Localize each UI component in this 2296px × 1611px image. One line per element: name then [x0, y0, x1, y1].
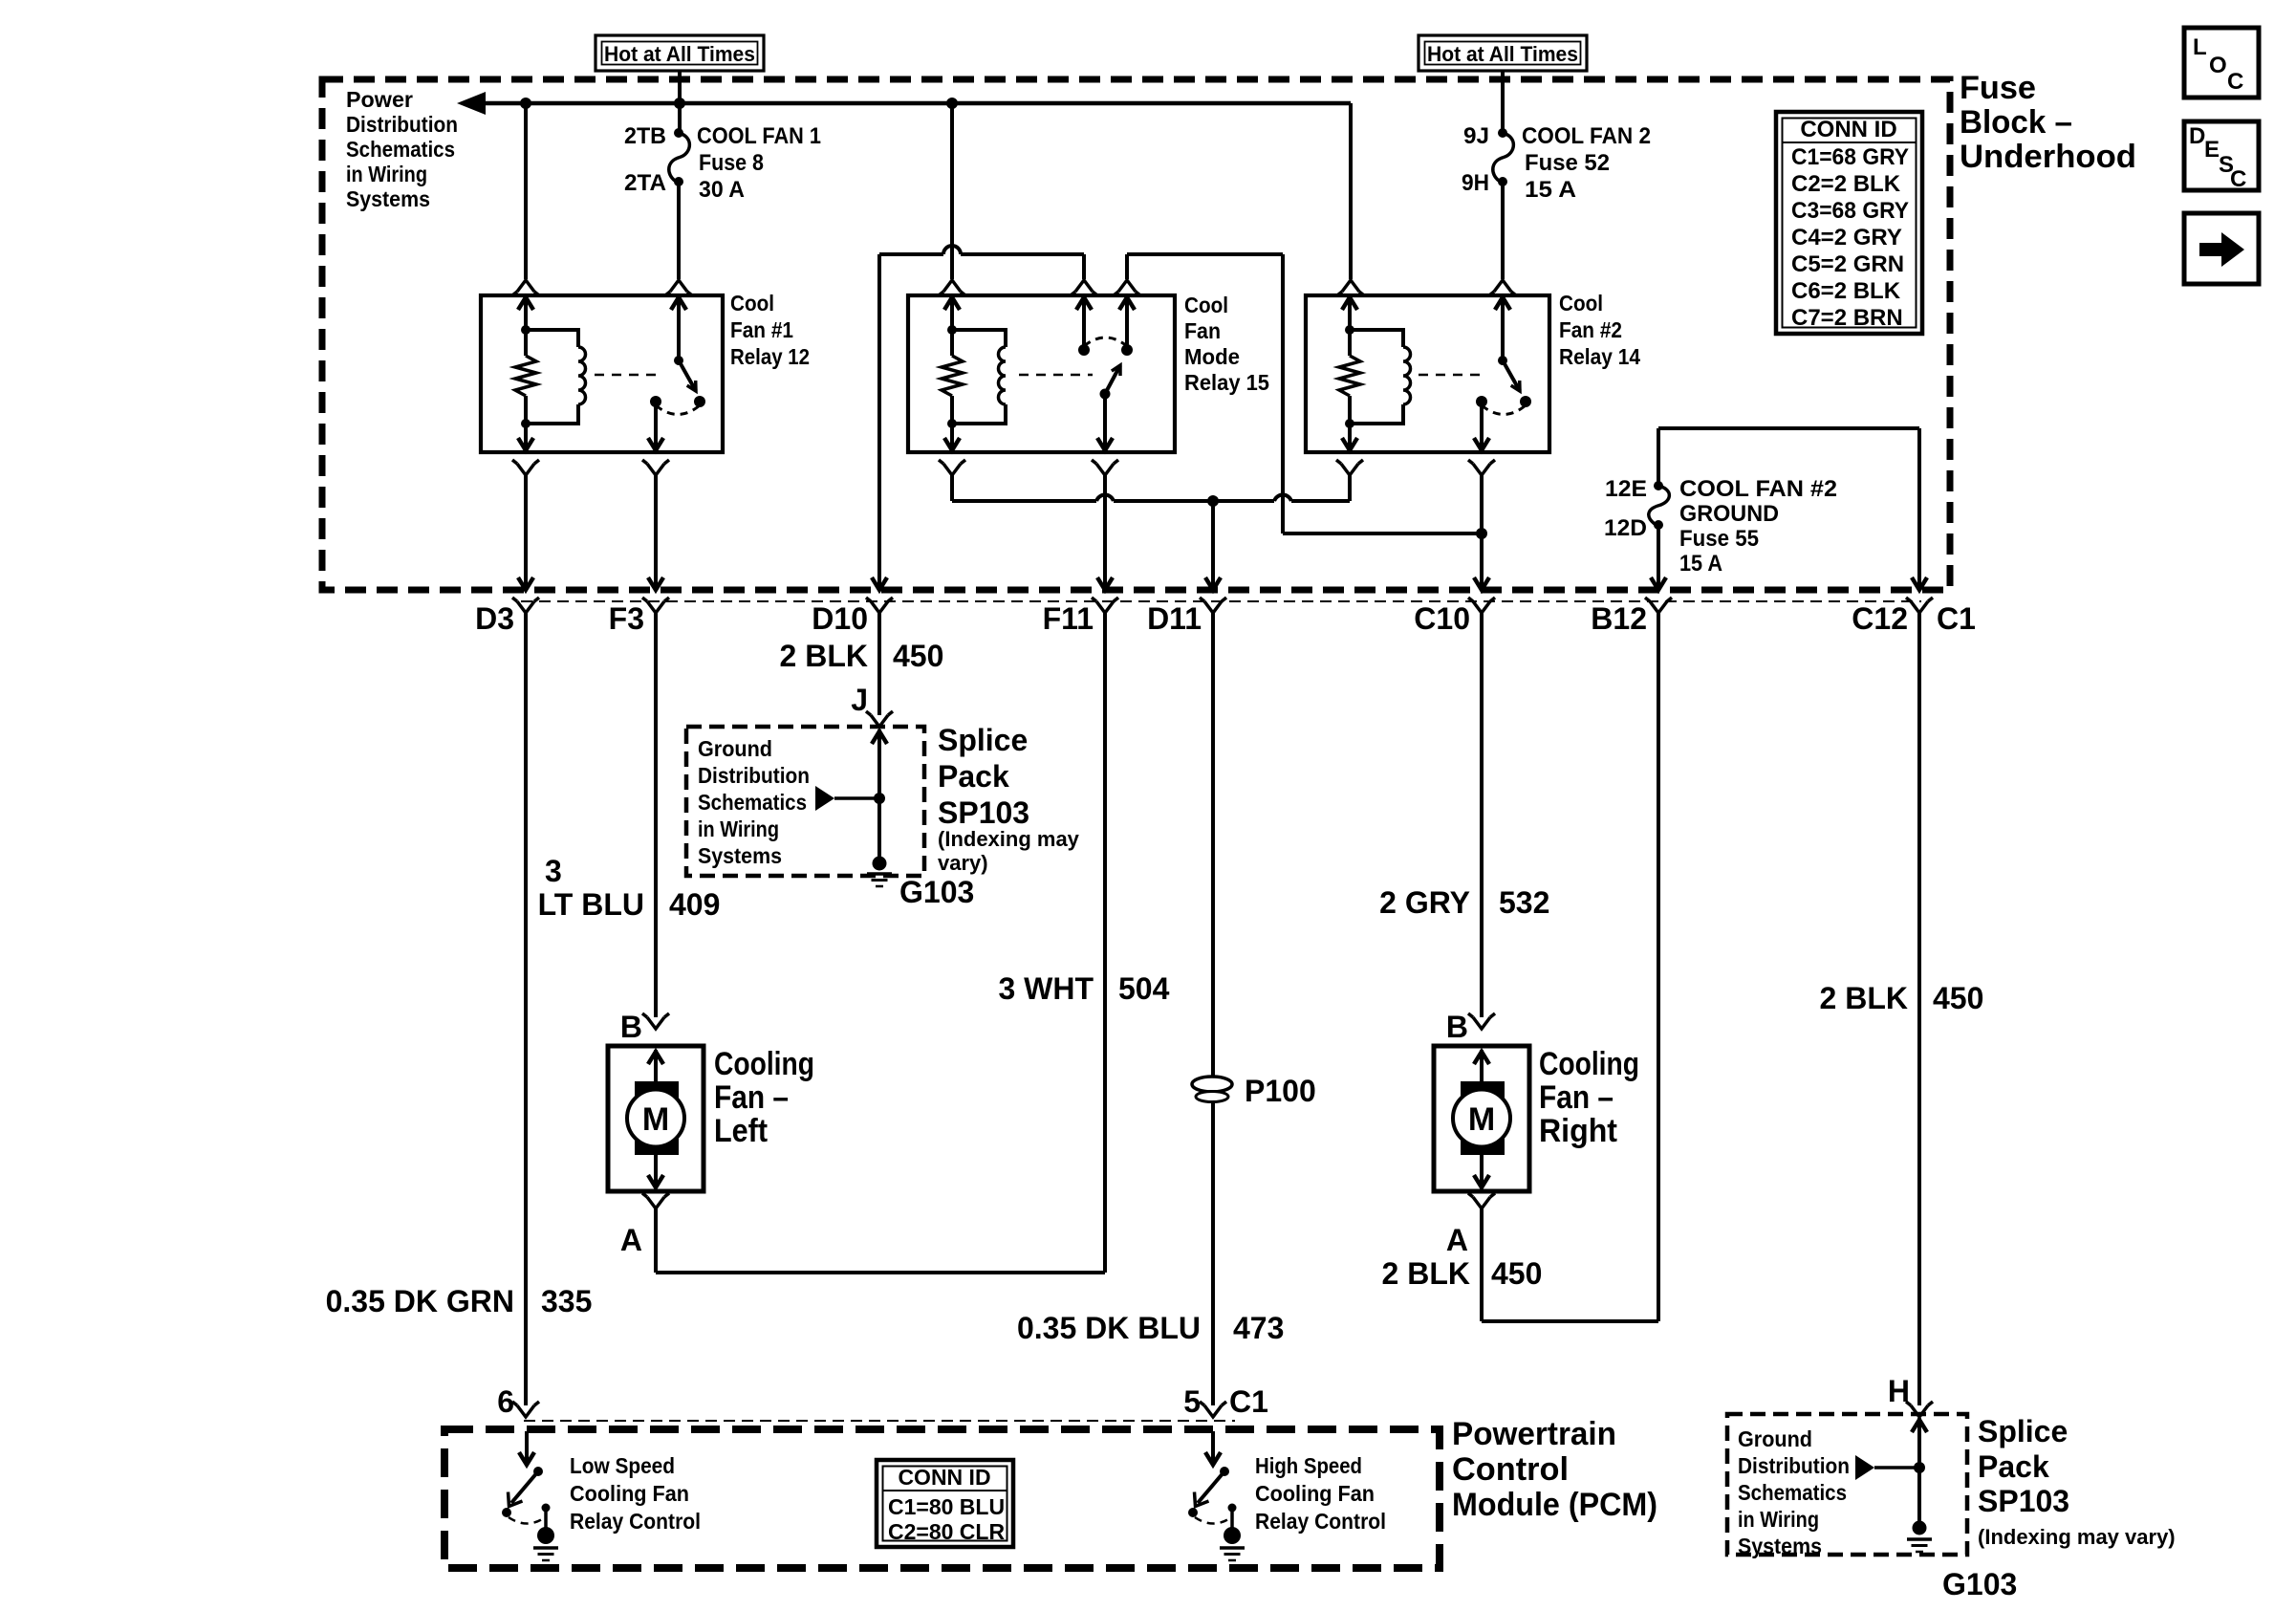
svg-text:0.35 DK BLU: 0.35 DK BLU [1017, 1311, 1201, 1345]
svg-text:in Wiring: in Wiring [1738, 1507, 1819, 1532]
label: Splice Pack SP103 (bottom) [1978, 1414, 2176, 1549]
svg-text:C5=2 GRN: C5=2 GRN [1791, 251, 1904, 277]
motor M2 box (Cooling Fan - Right) [1434, 1046, 1529, 1191]
svg-text:Cool: Cool [1184, 293, 1228, 317]
svg-text:O: O [2209, 53, 2227, 78]
svg-text:Relay 12: Relay 12 [730, 344, 810, 369]
svg-text:D3: D3 [475, 601, 514, 636]
svg-text:Cooling Fan: Cooling Fan [1255, 1481, 1375, 1506]
svg-text:Distribution: Distribution [346, 112, 458, 137]
label: Splice Pack SP103 (top) [938, 723, 1080, 875]
relay K12 coil [521, 330, 586, 428]
svg-text:Schematics: Schematics [1738, 1480, 1847, 1505]
label: Low Speed Cooling Fan Relay Control [570, 1453, 701, 1534]
svg-text:B: B [1446, 1010, 1468, 1044]
wire: D11 drop inside fuse block [1205, 501, 1221, 590]
wire: relay 15 NO contact riser [1114, 254, 1283, 533]
relay K15 common output wire [1092, 394, 1118, 590]
svg-text:Ground: Ground [1738, 1426, 1812, 1451]
svg-text:F3: F3 [609, 601, 644, 636]
icon box: DESC [2184, 121, 2259, 192]
relay K15 switch arm [1100, 365, 1121, 400]
svg-text:P100: P100 [1245, 1074, 1316, 1108]
label: Ground Distribution Schematics in Wiring Systems (bottom splice) [1738, 1426, 1850, 1558]
svg-text:473: 473 [1233, 1311, 1284, 1345]
wire: right fan A to B12 (2 BLK 450) [1382, 1208, 1658, 1321]
svg-text:Low Speed: Low Speed [570, 1453, 675, 1478]
svg-text:450: 450 [1933, 981, 1983, 1015]
relay K15 actuation dashed link [1019, 374, 1093, 377]
node: bus junction at fuse 8 [674, 98, 685, 109]
svg-text:Cool: Cool [730, 291, 774, 316]
svg-text:C12: C12 [1852, 601, 1908, 636]
wire: left hot box to bus [678, 71, 682, 103]
relay K14 switch [1476, 297, 1531, 415]
svg-text:9H: 9H [1462, 170, 1489, 196]
relay K15 contact dashed arc [1084, 337, 1127, 346]
svg-text:A: A [620, 1223, 642, 1257]
splice pack SP103 dashed box (bottom) [1727, 1414, 1967, 1555]
svg-text:0.35 DK GRN: 0.35 DK GRN [326, 1284, 514, 1318]
svg-text:2 BLK: 2 BLK [1820, 981, 1908, 1015]
svg-text:B: B [620, 1010, 642, 1044]
label: Cooling Fan - Right [1539, 1046, 1639, 1149]
PCM connector C1 label [1229, 1384, 1268, 1419]
svg-text:CONN ID: CONN ID [1800, 117, 1896, 142]
svg-text:Fan –: Fan – [714, 1079, 789, 1116]
svg-text:M: M [642, 1101, 669, 1138]
svg-text:(Indexing may: (Indexing may [938, 827, 1080, 851]
svg-text:Systems: Systems [1738, 1534, 1822, 1558]
connector pin F3 (fuse block) [609, 598, 669, 636]
wire: D10 corner to relay 15 NC contact [879, 246, 1097, 295]
svg-text:M: M [1468, 1101, 1495, 1138]
ground G103 (top) [867, 857, 974, 910]
PCM low speed fan relay driver [502, 1431, 558, 1560]
svg-text:GROUND: GROUND [1679, 501, 1779, 527]
svg-text:Fan: Fan [1184, 318, 1221, 343]
PCM dashed box (Powertrain Control Module) [444, 1429, 1440, 1568]
wire: right hot box to fuse 52 [1501, 71, 1505, 133]
svg-text:Hot at All Times: Hot at All Times [1427, 42, 1578, 66]
svg-text:C: C [2230, 166, 2246, 192]
ground G103 (bottom) [1907, 1521, 2017, 1602]
PCM pin 6 label [497, 1384, 514, 1419]
wire: bus to relay 15 coil [939, 103, 965, 295]
relay K14 label [1559, 291, 1640, 369]
svg-text:in Wiring: in Wiring [698, 816, 779, 841]
svg-text:CONN ID: CONN ID [898, 1465, 990, 1490]
svg-text:Cool: Cool [1559, 291, 1603, 316]
svg-text:2 BLK: 2 BLK [1382, 1256, 1470, 1291]
connector pin C12 (fuse block) [1852, 598, 1933, 636]
label box: Hot at All Times (right) [1419, 35, 1587, 71]
svg-text:E: E [2204, 137, 2220, 163]
svg-text:C10: C10 [1414, 601, 1470, 636]
svg-text:Fuse 8: Fuse 8 [699, 150, 764, 176]
relay K12 coil pin wire [518, 297, 533, 335]
relay K15 NC contact [1076, 297, 1092, 356]
relay K15 NO contact [1119, 297, 1135, 356]
relay K14 coil [1345, 330, 1411, 428]
svg-text:409: 409 [669, 887, 720, 922]
svg-text:5: 5 [1183, 1384, 1201, 1419]
svg-text:Underhood: Underhood [1960, 139, 2136, 175]
svg-text:2TA: 2TA [624, 170, 666, 196]
svg-text:Splice: Splice [1978, 1414, 2068, 1448]
svg-text:D: D [2189, 123, 2205, 149]
svg-text:C1: C1 [1229, 1384, 1268, 1419]
CONN ID table (fuse block) [1776, 112, 1922, 334]
splice SP103 stem (top) [815, 729, 887, 866]
svg-text:C7=2 BRN: C7=2 BRN [1791, 305, 1903, 331]
svg-text:G103: G103 [899, 875, 974, 909]
relay K12 switch [650, 297, 705, 415]
relay K14 box (Cool Fan #2 Relay 14) [1306, 295, 1549, 452]
svg-text:Splice: Splice [938, 723, 1028, 757]
wire B12 [1657, 613, 1660, 1321]
relay K12 resistor [515, 330, 536, 424]
svg-text:J: J [851, 683, 868, 717]
svg-text:Mode: Mode [1184, 344, 1240, 369]
fuse block dashed border (Fuse Block - Underhood) [322, 79, 1950, 590]
connector pin C10 (fuse block) [1414, 598, 1495, 636]
svg-text:C6=2 BLK: C6=2 BLK [1791, 278, 1901, 304]
svg-text:C2=2 BLK: C2=2 BLK [1791, 171, 1901, 197]
svg-text:C1=80 BLU: C1=80 BLU [888, 1494, 1005, 1519]
svg-text:C1: C1 [1937, 601, 1976, 636]
splice SP103 stem (bottom) [1855, 1418, 1927, 1530]
svg-text:Relay Control: Relay Control [570, 1509, 701, 1534]
relay K12 label [730, 291, 810, 369]
wire C10: 2 GRY 532 to right fan [1379, 613, 1549, 1044]
relay K15 box (Cool Fan Mode Relay 15) [908, 295, 1175, 452]
svg-text:Ground: Ground [698, 736, 772, 761]
svg-text:A: A [1446, 1223, 1468, 1257]
PCM high speed fan relay driver [1188, 1431, 1245, 1560]
svg-text:COOL FAN 1: COOL FAN 1 [697, 123, 821, 149]
svg-text:450: 450 [1491, 1256, 1542, 1291]
connector pin D10 (fuse block) [812, 598, 893, 636]
svg-text:Distribution: Distribution [1738, 1453, 1850, 1478]
svg-text:Block –: Block – [1960, 104, 2072, 141]
label: Power Distribution Schematics in Wiring Systems [346, 87, 458, 211]
svg-text:COOL FAN #2: COOL FAN #2 [1679, 476, 1837, 502]
svg-text:G103: G103 [1942, 1567, 2017, 1601]
svg-text:2 BLK: 2 BLK [780, 639, 868, 673]
wire: B12 drop from fuse 55 [1651, 525, 1666, 590]
fuse F8 (COOL FAN 1 Fuse 8 30A) [624, 103, 821, 203]
svg-text:Hot at All Times: Hot at All Times [604, 42, 755, 66]
label: Powertrain Control Module (PCM) [1452, 1416, 1657, 1523]
svg-text:Fuse: Fuse [1960, 70, 2036, 106]
wire F11: 3 WHT 504 [998, 613, 1169, 1273]
svg-text:12D: 12D [1604, 515, 1647, 541]
splice pack SP103 dashed box (top) [686, 727, 924, 876]
svg-text:Systems: Systems [346, 186, 430, 211]
svg-text:Cooling: Cooling [1539, 1046, 1639, 1082]
svg-text:H: H [1888, 1374, 1910, 1408]
svg-text:Module (PCM): Module (PCM) [1452, 1487, 1657, 1523]
svg-text:LT BLU: LT BLU [538, 887, 644, 922]
relay K14 actuation dashed link [1419, 374, 1486, 377]
motor M1 pin A [620, 1193, 669, 1257]
svg-text:335: 335 [541, 1284, 592, 1318]
relay K15 coil pin wire [944, 297, 960, 335]
svg-text:COOL FAN 2: COOL FAN 2 [1522, 123, 1651, 149]
connector pin D3 (fuse block) [475, 598, 539, 636]
svg-text:vary): vary) [938, 851, 988, 875]
wire: fuse 8 to relay 12 pin 30 [665, 182, 692, 295]
svg-text:504: 504 [1118, 971, 1170, 1006]
svg-text:SP103: SP103 [938, 795, 1029, 830]
fuse F52 (COOL FAN 2 Fuse 52 15A) [1462, 123, 1651, 203]
svg-text:D10: D10 [812, 601, 868, 636]
svg-text:3: 3 [545, 854, 562, 888]
relay K15 label [1184, 293, 1269, 395]
wire: D10 drop inside fuse block [872, 254, 887, 590]
wire: bus to relay 12 coil (D3 branch) [512, 103, 539, 295]
node: bus junction at D3 branch [520, 98, 531, 109]
svg-text:Cooling Fan: Cooling Fan [570, 1481, 689, 1506]
relay K15 resistor [942, 330, 963, 424]
svg-text:6: 6 [497, 1384, 514, 1419]
connector id label C1 (fuse block right) [1937, 601, 1976, 636]
wire: battery feed bus (horizontal) [457, 92, 1351, 115]
wire: relay 15 NO to C10 node [1283, 528, 1487, 539]
motor M2 pin A [1446, 1193, 1495, 1257]
PCM connector thin dashed line [524, 1420, 1235, 1422]
svg-text:532: 532 [1499, 885, 1549, 920]
grommet P100 [1192, 1074, 1316, 1108]
svg-text:F11: F11 [1043, 601, 1094, 636]
svg-text:2 GRY: 2 GRY [1379, 885, 1470, 920]
svg-text:Fan #2: Fan #2 [1559, 317, 1622, 342]
svg-text:B12: B12 [1591, 601, 1647, 636]
relay K12 coil return wire [512, 424, 539, 590]
svg-text:C: C [2227, 69, 2243, 95]
svg-text:in Wiring: in Wiring [346, 162, 427, 186]
svg-text:C2=80 CLR: C2=80 CLR [888, 1519, 1005, 1544]
svg-text:Pack: Pack [1978, 1449, 2049, 1484]
svg-text:High Speed: High Speed [1255, 1453, 1362, 1478]
svg-text:Relay Control: Relay Control [1255, 1509, 1386, 1534]
svg-text:Right: Right [1539, 1113, 1617, 1149]
relay K14 coil return wire [1336, 424, 1363, 501]
svg-text:Cooling: Cooling [714, 1046, 814, 1082]
svg-text:Systems: Systems [698, 843, 782, 868]
svg-text:Control: Control [1452, 1451, 1569, 1488]
motor M1 box (Cooling Fan - Left) [608, 1046, 704, 1191]
svg-text:Fuse 52: Fuse 52 [1525, 150, 1610, 176]
svg-text:9J: 9J [1463, 123, 1489, 149]
label: Ground Distribution Schematics in Wiring Systems (top splice) [698, 736, 810, 868]
svg-text:(Indexing may vary): (Indexing may vary) [1978, 1525, 2176, 1549]
PCM pin 5 label [1183, 1384, 1201, 1419]
wire: left fan A to F11 (3 WHT 504) [656, 1208, 1105, 1273]
svg-text:Pack: Pack [938, 759, 1009, 794]
wire: bus corner to relay 14 coil [1337, 103, 1364, 295]
motor M2 internals [1453, 1050, 1510, 1187]
svg-text:30 A: 30 A [699, 177, 745, 203]
relay K12 box (Cool Fan #1 Relay 12) [481, 295, 723, 452]
relay K14 coil pin wire [1342, 297, 1357, 335]
svg-text:Fan #1: Fan #1 [730, 317, 793, 342]
svg-text:D11: D11 [1147, 601, 1202, 636]
fuse F55 (COOL FAN #2 GROUND Fuse 55 15A) [1604, 428, 1837, 577]
wire: fuse 55 to C12 corner [1658, 428, 1927, 590]
svg-text:L: L [2193, 34, 2207, 60]
svg-text:12E: 12E [1605, 476, 1647, 502]
wire D10: 2 BLK 450 to splice [780, 613, 944, 727]
svg-text:Relay 15: Relay 15 [1184, 370, 1269, 395]
svg-text:2TB: 2TB [624, 123, 666, 149]
PCM CONN ID table [877, 1460, 1013, 1547]
svg-text:SP103: SP103 [1978, 1484, 2069, 1518]
connector pin F11 (fuse block) [1043, 598, 1118, 636]
connector pin B12 (fuse block) [1591, 598, 1672, 636]
node: bus junction at relay 15 branch [946, 98, 958, 109]
relay K14 resistor [1339, 330, 1360, 424]
svg-text:Fan –: Fan – [1539, 1079, 1614, 1116]
icon box: forward arrow [2184, 213, 2259, 284]
svg-text:C1=68 GRY: C1=68 GRY [1791, 144, 1909, 170]
wire D3: 0.35 DK GRN 335 to PCM [326, 613, 593, 1417]
label: Fuse Block - Underhood [1960, 70, 2136, 175]
label: High Speed Cooling Fan Relay Control [1255, 1453, 1386, 1534]
svg-text:Schematics: Schematics [698, 790, 807, 815]
wire: coil return line K15-K14 (with hops and D11 tap) [952, 495, 1350, 507]
svg-text:Left: Left [714, 1113, 768, 1149]
svg-text:3 WHT: 3 WHT [998, 971, 1094, 1006]
wire F3: 3 LT BLU 409 to left fan [538, 613, 721, 1044]
connector pin D11 (fuse block) [1147, 598, 1226, 636]
svg-text:450: 450 [893, 639, 943, 673]
wire: fuse 52 to relay 14 pin 30 [1489, 182, 1516, 295]
wire C12: 2 BLK 450 to splice H [1820, 613, 1984, 1417]
wire D11: 0.35 DK BLU 473 to PCM [1017, 613, 1284, 1417]
svg-text:15 A: 15 A [1679, 551, 1722, 577]
svg-text:Fuse 55: Fuse 55 [1679, 526, 1759, 552]
svg-text:Schematics: Schematics [346, 137, 455, 162]
relay K15 coil [947, 330, 1006, 428]
svg-text:C3=68 GRY: C3=68 GRY [1791, 198, 1909, 224]
svg-text:Power: Power [346, 87, 413, 112]
svg-text:Distribution: Distribution [698, 763, 810, 788]
motor M1 internals [627, 1050, 684, 1187]
svg-text:Powertrain: Powertrain [1452, 1416, 1616, 1452]
relay K14 switch output wire [1468, 402, 1495, 590]
svg-text:C4=2 GRY: C4=2 GRY [1791, 225, 1902, 250]
label: Cooling Fan - Left [714, 1046, 814, 1149]
relay K12 switch output wire [642, 402, 669, 590]
connector row thin dashed line (fuse block bottom connectors) [521, 600, 1921, 602]
svg-text:15 A: 15 A [1525, 177, 1576, 203]
relay K15 coil return wire [939, 424, 965, 501]
icon box: LOC [2184, 28, 2259, 98]
relay K12 actuation dashed link [595, 374, 662, 377]
label box: Hot at All Times (left) [596, 35, 764, 71]
svg-text:Relay 14: Relay 14 [1559, 344, 1640, 369]
